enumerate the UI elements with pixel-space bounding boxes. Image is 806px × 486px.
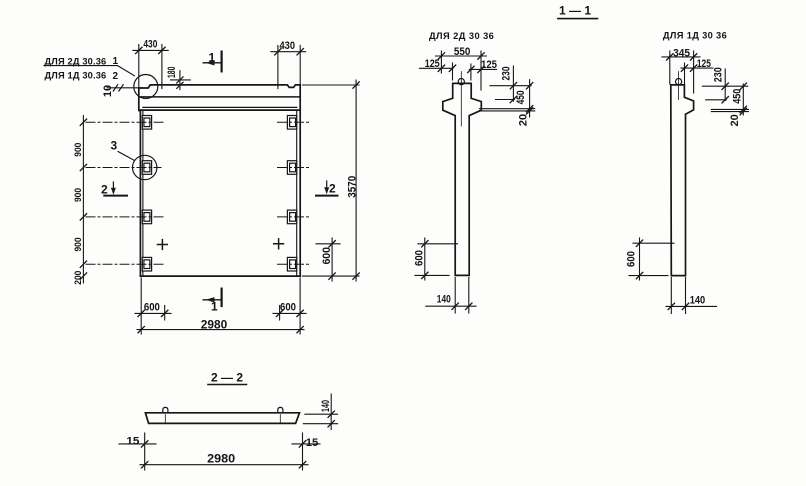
svg-text:140: 140 xyxy=(437,294,451,306)
2Д dim 230 tick a xyxy=(510,83,516,89)
anchor R2 xyxy=(287,161,296,175)
bottom ext line right (panel corner) xyxy=(299,278,301,334)
svg-text:600: 600 xyxy=(321,247,333,264)
svg-text:2: 2 xyxy=(113,71,119,82)
svg-text:125: 125 xyxy=(697,58,711,70)
2Д dim 600 ext top xyxy=(418,243,458,245)
1Д taper double line lower xyxy=(711,111,748,113)
1Д dim 600 ext top xyxy=(633,242,674,244)
dim 180 tick b xyxy=(177,82,183,88)
section mark 2 left: bar xyxy=(104,195,127,197)
svg-text:1: 1 xyxy=(211,300,218,314)
dim 430 left tick right xyxy=(159,47,165,53)
svg-text:550: 550 xyxy=(454,46,471,58)
dim 180 tick a xyxy=(177,77,183,83)
dim 125 right tick a xyxy=(468,66,474,72)
svg-text:10: 10 xyxy=(102,85,114,97)
leader for detail 3 xyxy=(118,152,134,161)
ext line bottom for 3570 xyxy=(303,275,360,277)
panel bottom edge xyxy=(140,275,300,277)
dim 550 tick left xyxy=(438,53,444,59)
1Д dim 20 tick b xyxy=(740,108,746,114)
dim 125 left tick a xyxy=(438,65,444,71)
2-2 loop left axis xyxy=(164,415,166,423)
2-2 dim 15 right: line xyxy=(292,443,320,445)
ext line top for 3570 xyxy=(303,84,360,86)
dim 10 leader line xyxy=(107,87,143,89)
section mark 1 bottom: arrow xyxy=(206,297,215,302)
axis row 1 right xyxy=(278,121,311,123)
dim 125 (1Д): line xyxy=(681,67,713,69)
2-2 ext line right xyxy=(302,433,304,470)
svg-text:600: 600 xyxy=(280,302,296,314)
dim 345 ext right xyxy=(693,51,695,93)
svg-text:345: 345 xyxy=(673,48,690,60)
dim 600 right tick top xyxy=(329,241,335,247)
dim 2980: line xyxy=(137,329,304,331)
1Д dim 140 tick a xyxy=(668,303,674,309)
plus mark right xyxy=(274,239,284,249)
2-2 dim 15 right tick xyxy=(299,441,305,447)
2Д right dims: top ext line xyxy=(490,85,531,87)
2Д dim 140 tick b xyxy=(466,303,472,309)
2Д dim 140: ext left xyxy=(454,278,456,314)
svg-text:ДЛЯ 2Д 30.36: ДЛЯ 2Д 30.36 xyxy=(45,57,107,67)
2-2 dim 140 ext top xyxy=(305,413,338,415)
2Д dim 600 ext bottom xyxy=(415,274,449,276)
1Д dim 600: vertical line xyxy=(639,238,641,280)
dim 180 vertical ext line xyxy=(179,71,181,90)
1Д dim 140: ext left xyxy=(670,278,672,314)
section 2Д lifting loop xyxy=(458,79,464,85)
section 1Д loop axis line xyxy=(678,72,680,100)
dim 3570: vertical line xyxy=(355,80,357,281)
section mark 2 left: arrowhead xyxy=(111,188,116,195)
dim 2980 tick left xyxy=(138,326,144,332)
svg-text:2: 2 xyxy=(101,183,108,197)
2-2 dim 2980 tick right xyxy=(299,462,305,468)
anchor R1 xyxy=(287,116,296,130)
section mark 1 top: arrow xyxy=(206,60,215,65)
anchor R4 xyxy=(287,257,296,271)
panel outer right edge xyxy=(299,85,301,276)
axis row 2 right xyxy=(278,167,311,169)
axis row 3 left xyxy=(86,216,164,218)
dim 430 left ext line right xyxy=(161,45,163,83)
dim 125 left tick b xyxy=(449,65,455,71)
1Д dim 230 tick a xyxy=(722,83,728,89)
svg-text:2 — 2: 2 — 2 xyxy=(211,371,243,385)
1Д dim 230 tick b xyxy=(722,97,728,103)
panel inner left edge xyxy=(142,110,144,276)
2-2 ext line left xyxy=(144,433,146,470)
svg-text:2980: 2980 xyxy=(207,452,235,466)
2Д dim 450 vertical line xyxy=(529,80,531,117)
2-2 dim 15 left tick xyxy=(142,441,148,447)
svg-text:600: 600 xyxy=(144,302,160,314)
1Д dim 600 tick top xyxy=(636,240,642,246)
svg-text:15: 15 xyxy=(126,436,139,448)
dim 430 right ext line left xyxy=(277,46,279,83)
left vertical dimension line (900s) xyxy=(82,116,84,284)
axis row 3 right xyxy=(278,216,311,218)
dim 10 tick b xyxy=(119,85,123,91)
2Д dim 600 tick top xyxy=(422,241,428,247)
dim 600 right tick bottom xyxy=(329,273,335,279)
svg-text:900: 900 xyxy=(73,188,84,202)
section 2-2 title underline xyxy=(208,384,247,386)
dim 180 horizontal line xyxy=(171,79,191,81)
1Д dim 450 tick a xyxy=(740,83,746,89)
svg-text:450: 450 xyxy=(515,90,527,104)
dim 345 tick right xyxy=(690,54,696,60)
dim 125 left (2Д): line xyxy=(420,67,454,69)
2Д dim 450 tick a xyxy=(526,83,532,89)
dim 345: line xyxy=(662,56,700,58)
2Д dim 140 tick a xyxy=(452,303,458,309)
2-2 loop left xyxy=(163,407,168,412)
svg-text:230: 230 xyxy=(500,67,512,81)
2Д dim 600 tick bottom xyxy=(422,272,428,278)
dim 430 left tick left xyxy=(136,47,142,53)
svg-text:450: 450 xyxy=(732,89,744,104)
svg-text:15: 15 xyxy=(306,437,319,449)
2-2 dim 140 ext bottom xyxy=(303,423,337,425)
svg-text:600: 600 xyxy=(626,251,638,267)
top-left detail circle xyxy=(134,75,158,99)
svg-text:140: 140 xyxy=(320,400,332,412)
svg-text:600: 600 xyxy=(413,250,425,266)
section 2Д outline xyxy=(443,83,482,275)
svg-text:3570: 3570 xyxy=(347,176,359,198)
section 1Д outline xyxy=(671,85,694,276)
svg-text:ДЛЯ 1Д 30.36: ДЛЯ 1Д 30.36 xyxy=(45,71,107,81)
2Д taper double line lower xyxy=(480,110,535,112)
section 1Д lifting loop xyxy=(676,79,682,85)
svg-text:3: 3 xyxy=(111,139,118,153)
2Д dim 230 tick b xyxy=(510,96,516,102)
svg-text:1: 1 xyxy=(209,51,216,65)
2Д dim 230 vertical line xyxy=(512,66,514,101)
section mark 1 top: line xyxy=(203,62,221,64)
svg-text:ДЛЯ 2Д 30 36: ДЛЯ 2Д 30 36 xyxy=(429,31,494,41)
dim 600 bottom-right: ext xyxy=(279,306,281,321)
dim 550: line xyxy=(436,55,487,57)
1Д dim 140 tick b xyxy=(682,303,688,309)
svg-text:430: 430 xyxy=(280,40,296,52)
svg-text:1 — 1: 1 — 1 xyxy=(559,4,591,18)
2-2 dim 2980: line xyxy=(140,464,308,466)
1Д dim 600 ext bottom xyxy=(629,275,668,277)
anchor L4 xyxy=(142,257,151,271)
dim 600 bottom-right: line xyxy=(273,312,306,314)
2Д dim 140: ext right xyxy=(468,278,470,314)
cap bottom double line upper xyxy=(143,106,297,108)
dim 10 tick a xyxy=(113,85,117,91)
dim 600 bottom-right tick a xyxy=(276,310,282,316)
tick 900 row1 xyxy=(80,119,86,125)
tick 900 row2 xyxy=(80,164,86,170)
section mark 1 bottom: line xyxy=(203,299,221,301)
svg-text:140: 140 xyxy=(690,295,706,307)
1Д dim 600 tick bottom xyxy=(636,272,642,278)
svg-text:200: 200 xyxy=(73,271,84,285)
detail circle 3 xyxy=(133,155,157,179)
svg-text:125: 125 xyxy=(425,58,440,70)
section 2Д loop axis line xyxy=(460,72,462,127)
dim 600 bottom-left tick a xyxy=(138,310,144,316)
section mark 1 bottom: bar xyxy=(221,289,223,306)
svg-text:1: 1 xyxy=(113,56,119,67)
2-2 loop right axis xyxy=(279,415,281,423)
section mark 2 right: arrowhead xyxy=(324,187,329,194)
axis row 4 left xyxy=(86,263,165,265)
dim 125 right (2Д): line xyxy=(469,68,496,70)
section mark 2 right: bar xyxy=(316,195,338,197)
2Д dim 600: vertical line xyxy=(424,238,426,280)
axis row 2 left xyxy=(86,167,161,169)
2Д dim 20 tick a xyxy=(526,106,532,112)
axis row 4 right xyxy=(278,263,311,265)
2-2 dim 140: vertical line xyxy=(330,394,332,430)
dim 430 right tick right xyxy=(297,49,303,55)
lifting loop tick right on cap xyxy=(277,83,279,89)
panel outer left edge xyxy=(139,110,141,276)
bottom ext line left (panel corner) xyxy=(140,278,142,334)
svg-text:430: 430 xyxy=(143,39,157,51)
dim 430 left: dim line xyxy=(133,49,168,51)
plus mark left xyxy=(158,240,168,250)
tick bottom xyxy=(80,273,86,279)
svg-text:20: 20 xyxy=(729,114,741,126)
panel cap (top beam) outline xyxy=(139,85,300,111)
lifting loop tick left on cap xyxy=(161,83,163,89)
cap mid line xyxy=(139,96,300,98)
2-2 dim 2980 tick left xyxy=(142,462,148,468)
tick 900 row3 xyxy=(80,214,86,220)
section mark 1 top: bar xyxy=(221,52,223,72)
dim 600 bottom-left tick b xyxy=(162,310,168,316)
anchor L2 xyxy=(142,161,151,175)
dim 2980 tick right xyxy=(297,326,303,332)
dim 125 (1Д) ext xyxy=(684,63,686,84)
svg-text:20: 20 xyxy=(517,114,529,126)
svg-text:125: 125 xyxy=(481,59,497,71)
svg-text:900: 900 xyxy=(73,238,84,252)
ext line for 600 right vertical xyxy=(316,243,340,245)
dim 125 left ext xyxy=(452,63,454,80)
dim 125 (1Д) tick b xyxy=(690,65,696,71)
1Д dim 230 vertical line xyxy=(724,69,726,101)
2Д dim 20 tick b xyxy=(526,108,532,114)
2-2 dim 140 tick b xyxy=(328,421,334,427)
dim 345 ext left xyxy=(669,51,671,84)
anchors left column xyxy=(142,116,151,272)
axis row 1 left xyxy=(86,121,164,123)
svg-text:900: 900 xyxy=(73,143,84,157)
dim 430 right: dim line xyxy=(271,51,306,53)
svg-text:230: 230 xyxy=(713,67,725,82)
2-2 dim 140 tick a xyxy=(328,411,334,417)
dim 550 ext left xyxy=(440,51,442,73)
dim 345 tick left xyxy=(667,54,673,60)
leader from labels to detail circle xyxy=(44,66,135,76)
anchor R3 xyxy=(287,210,296,224)
dim 125 (1Д) tick a xyxy=(681,65,687,71)
dim 550 tick right xyxy=(478,53,484,59)
dim 600 bottom-left: ext xyxy=(164,306,166,321)
dim 125 right ext xyxy=(470,64,472,80)
dim 3570 tick top xyxy=(353,82,359,88)
dim 600 right: vertical line xyxy=(331,238,333,281)
2-2 loop right xyxy=(278,407,283,412)
section mark 2 left: arrow line xyxy=(112,182,114,192)
section mark 2 right: arrow line xyxy=(326,181,328,192)
cap bottom double line lower xyxy=(141,109,300,111)
2-2 dim 15 left: line xyxy=(119,443,156,445)
anchors right column xyxy=(287,116,296,272)
svg-text:2980: 2980 xyxy=(201,317,228,331)
dim 430 right ext line right xyxy=(299,46,301,85)
tick 900 row4 xyxy=(80,261,86,267)
panel inner right edge xyxy=(296,110,298,276)
section 2-2 strip outline xyxy=(145,413,299,424)
1Д dim 230 bottom tick line xyxy=(706,99,727,101)
anchor L3 xyxy=(142,210,151,224)
2Д dim 140: line xyxy=(426,305,476,307)
1Д dim 140: line xyxy=(666,305,717,307)
dim 430 right tick left xyxy=(275,49,281,55)
dim 3570 tick bottom xyxy=(353,273,359,279)
1Д dim 20 tick a xyxy=(740,106,746,112)
section 1-1 title underline xyxy=(558,18,598,20)
dim 550 ext right xyxy=(480,51,482,90)
1Д right dims: top ext line xyxy=(702,85,747,87)
1Д taper double line upper xyxy=(711,108,748,110)
2Д dim 230 bottom tick line xyxy=(496,99,515,101)
2Д taper double line upper xyxy=(480,108,535,110)
dim 600 bottom-left: line xyxy=(135,312,171,314)
dim 600 bottom-right tick b xyxy=(297,310,303,316)
svg-text:180: 180 xyxy=(166,67,178,79)
dim 125 right tick b xyxy=(478,66,484,72)
svg-text:2: 2 xyxy=(329,182,336,196)
svg-text:ДЛЯ 1Д 30 36: ДЛЯ 1Д 30 36 xyxy=(663,31,727,41)
1Д dim 140: ext right xyxy=(685,278,687,314)
anchor L1 xyxy=(142,116,151,130)
dim 430 left ext line left xyxy=(138,45,140,88)
1Д dim 450 vertical line xyxy=(742,84,744,115)
anchor row axis lines (dash-dot) xyxy=(86,122,311,264)
